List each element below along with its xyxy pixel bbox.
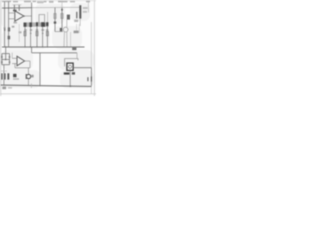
resistor R3 lead — [24, 27, 26, 47]
wire bottom rail — [1, 85, 92, 86]
wire op-amp2 input - — [12, 63, 17, 65]
node rail joints — [5, 46, 48, 47]
wire op-amp1 input + — [9, 12, 15, 14]
op-amp IC1A — [15, 11, 24, 21]
label R1 — [12, 26, 15, 28]
capacitor C3 lead — [36, 27, 38, 48]
label under C5 — [74, 20, 78, 22]
label GND right — [72, 48, 76, 51]
wire branch x55 — [54, 8, 56, 32]
wire extra leg — [70, 32, 72, 47]
wire supply right — [87, 1, 89, 13]
capacitor C1 — [14, 5, 15, 11]
label values row — [24, 29, 48, 31]
wire feedback bottom — [15, 67, 30, 69]
label 0V — [2, 87, 6, 90]
wire feedback up — [14, 64, 16, 68]
capacitor C5 plate — [76, 12, 77, 19]
label C3 — [36, 22, 38, 26]
label bottom bar 3 — [7, 73, 9, 79]
label under op-amp1 — [14, 22, 17, 24]
wire C5 lead down — [79, 19, 81, 26]
wire drop from rail — [31, 47, 33, 53]
capacitor C3 body — [36, 31, 38, 35]
resistor R4 lead — [30, 27, 32, 47]
capacitor C4 body — [46, 31, 48, 35]
label R6 — [67, 15, 70, 20]
label bottom middle — [64, 72, 70, 74]
node junction x62 — [61, 9, 63, 11]
wiper tick — [4, 27, 6, 28]
label band — [23, 22, 48, 26]
capacitor C4 lead — [46, 26, 48, 47]
wire ladder mid bar — [2, 59, 10, 61]
label C4 — [46, 22, 48, 26]
wire input line 2 — [8, 2, 10, 48]
wire jack output — [73, 67, 91, 69]
jack J1 — [67, 63, 73, 70]
label C5 value — [83, 7, 88, 9]
resistor R10 body — [61, 14, 63, 19]
wire top rail right — [32, 6, 81, 8]
node ladder — [5, 59, 7, 61]
connector box outline — [65, 59, 78, 67]
resistor R7 body — [1, 56, 2, 58]
wire right vertical — [90, 68, 92, 86]
label R2 — [19, 31, 22, 33]
label bottom text — [13, 74, 16, 77]
diode D1 bar — [30, 33, 32, 34]
wire ladder bottom bar — [2, 64, 10, 66]
wire stub — [47, 12, 49, 22]
wire loop top-middle — [39, 15, 45, 23]
wire meter tail — [27, 79, 29, 86]
label small — [8, 87, 12, 89]
wire op-amp1 output — [24, 15, 32, 17]
node input cross 2 — [8, 7, 10, 9]
wire ladder tail — [3, 65, 5, 86]
wire bar 2 — [1, 70, 7, 72]
resistor R7 branch — [1, 54, 3, 65]
label bottom text 2 — [13, 78, 19, 80]
wire meter stem — [27, 68, 29, 75]
wire ladder top bar — [2, 53, 10, 55]
node op-amp1 output — [23, 15, 25, 17]
label Q1 base — [60, 28, 63, 31]
label IC1A — [13, 10, 17, 12]
label near meter — [31, 75, 33, 78]
label bottom bar 1 — [1, 73, 2, 79]
node input cross 1 — [4, 7, 6, 9]
wire base feed — [55, 31, 63, 33]
label R4 — [29, 22, 32, 27]
component R on input line — [8, 27, 10, 31]
label bottom bar 2 — [4, 73, 5, 79]
meter M1 — [27, 74, 31, 78]
wire node A vertical — [31, 3, 33, 23]
node at x55 — [54, 22, 56, 24]
resistor R3 body — [24, 31, 26, 35]
op-amp IC1B — [17, 56, 25, 66]
capacitor C7 body — [9, 61, 10, 63]
component on input line 1 — [4, 28, 6, 31]
wire stub above node — [61, 2, 63, 7]
text above loop — [38, 2, 44, 4]
capacitor C5 body — [79, 5, 81, 18]
title text row — [2, 0, 90, 3]
label R3 — [24, 23, 27, 27]
battery B1 plate 1 — [87, 77, 89, 81]
battery B1 plate 2 — [90, 76, 92, 81]
wire op-amp2 input + — [12, 57, 17, 59]
wire top rail left — [2, 7, 32, 9]
label by meter — [26, 74, 27, 79]
wire ladder drop — [5, 47, 7, 60]
resistor R5 lead — [42, 27, 44, 47]
wire long vertical — [39, 53, 41, 86]
wire input line 1 — [4, 2, 6, 48]
wire mid faint — [18, 24, 20, 42]
transistor Q1 collector lead — [66, 32, 68, 47]
wire op-amp2 left vertical — [11, 53, 13, 59]
wire branch x62 — [61, 8, 63, 28]
wire stub cross — [30, 84, 32, 89]
label right mid — [74, 31, 79, 34]
node bottom joint 2 — [39, 85, 40, 86]
wire op-amp2 output — [25, 60, 30, 62]
capacitor C6 branch — [9, 54, 11, 65]
wire jack bottom lead — [69, 71, 71, 87]
component R2 body — [8, 36, 11, 40]
wire mid rail — [2, 46, 85, 48]
wire feedback down — [29, 61, 31, 68]
wire caps top bar — [13, 4, 22, 6]
label C5 name — [83, 11, 87, 13]
node bottom joint — [70, 85, 72, 87]
capacitor C6 body — [9, 56, 10, 58]
diode D2 bar — [42, 33, 44, 34]
resistor R8 body — [1, 61, 2, 63]
capacitor C2 — [19, 5, 20, 11]
transistor Q1 emitter lead — [63, 32, 65, 47]
wire mid horizontal — [32, 52, 77, 54]
jack J1 inner — [69, 65, 72, 68]
transistor Q1 — [63, 27, 68, 32]
wire op-amp1 input - — [9, 18, 15, 20]
wire drop to box — [76, 53, 78, 59]
wire right components 2 — [78, 24, 80, 33]
label R5 — [41, 22, 45, 27]
wire right components — [76, 24, 78, 33]
resistor R9 body — [54, 14, 56, 19]
wire collector up — [66, 20, 68, 28]
label bottom middle 2 — [72, 72, 75, 74]
